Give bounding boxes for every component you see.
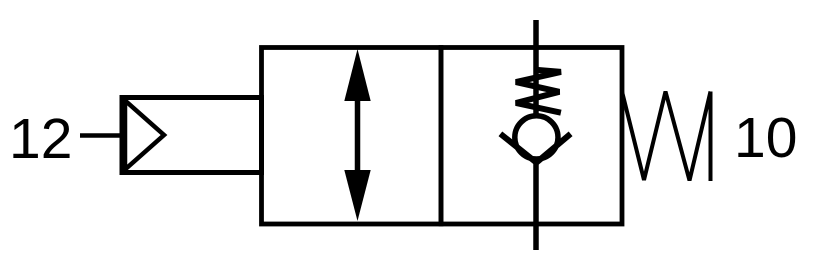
check valve ball bbox=[515, 116, 558, 159]
svg-text:12: 12 bbox=[9, 107, 72, 171]
wire lead from 12 bbox=[80, 133, 122, 138]
valve body left square bbox=[262, 48, 442, 225]
return spring bbox=[622, 92, 711, 181]
pilot triangle bbox=[125, 101, 164, 170]
return spring end bar bbox=[709, 92, 713, 182]
arrowhead up bbox=[344, 49, 370, 101]
arrowhead down bbox=[344, 170, 370, 221]
check valve seat bbox=[500, 134, 570, 163]
check valve top stem bbox=[533, 20, 539, 118]
check valve spring bbox=[516, 70, 561, 113]
check valve bottom stem bbox=[533, 160, 539, 250]
pilot actuator box bbox=[122, 98, 262, 173]
double-headed arrow shaft bbox=[355, 90, 361, 180]
valve body right square bbox=[441, 48, 622, 225]
svg-text:10: 10 bbox=[734, 106, 797, 170]
